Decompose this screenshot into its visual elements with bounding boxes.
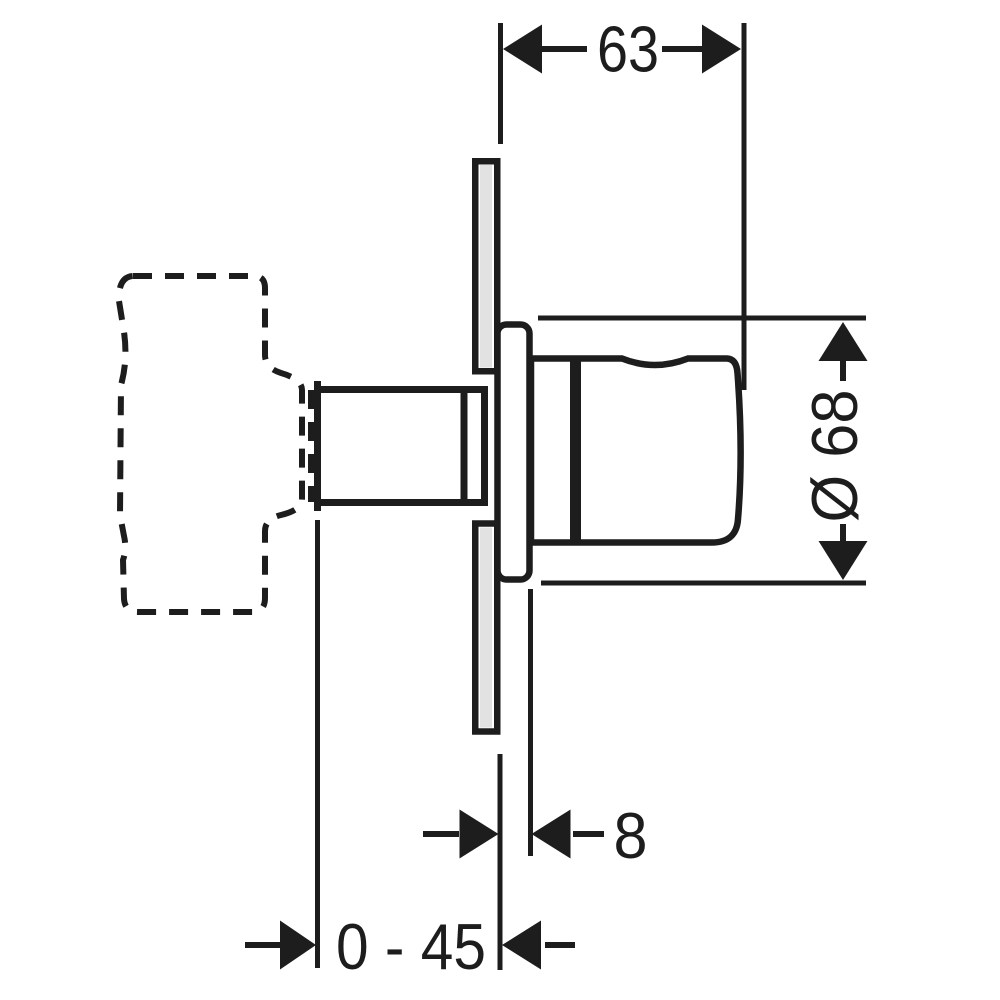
arrow right bbox=[702, 25, 741, 74]
arrow pointing left bbox=[532, 810, 571, 859]
svg-text:8: 8 bbox=[614, 799, 648, 872]
extension line right bbox=[528, 589, 533, 856]
extension line bottom bbox=[541, 581, 866, 586]
extension line left (shared with 0-45) bbox=[498, 754, 503, 970]
extension line right bbox=[742, 23, 747, 390]
arrow pointing right bbox=[460, 810, 499, 859]
arrow pointing right bbox=[280, 921, 316, 970]
handle joint line bbox=[570, 357, 581, 545]
dimension line tails bbox=[245, 942, 282, 948]
dimension line tails bbox=[840, 360, 846, 381]
svg-text:0 - 45: 0 - 45 bbox=[336, 910, 486, 983]
arrow left bbox=[503, 25, 542, 74]
wall / tile cross-section lower strip bbox=[475, 524, 497, 732]
dimension 0 - 45 bbox=[245, 520, 575, 968]
dimension line bbox=[540, 46, 587, 52]
wall / tile cross-section upper strip bbox=[475, 161, 497, 371]
svg-text:63: 63 bbox=[597, 13, 659, 86]
arrow down bbox=[819, 541, 868, 580]
dimension 8 bbox=[423, 589, 604, 970]
concealed valve body (dashed outline behind wall) bbox=[119, 276, 311, 612]
escutcheon plate (round, seen edge-on) bbox=[498, 325, 530, 580]
extension line left bbox=[315, 520, 320, 968]
spindle left end cap bbox=[314, 381, 321, 511]
arrow up bbox=[819, 322, 868, 361]
dimension line tails bbox=[423, 831, 459, 837]
hidden spindle end (inner dashed line) bbox=[308, 390, 314, 502]
valve spindle bbox=[318, 381, 485, 511]
extension line left bbox=[498, 23, 503, 144]
dimension 63 bbox=[501, 23, 745, 390]
spindle step line bbox=[461, 390, 468, 503]
extension line top bbox=[538, 316, 866, 321]
handle bbox=[531, 357, 741, 545]
svg-text:Ø 68: Ø 68 bbox=[798, 390, 871, 523]
dimension Ø 68 bbox=[538, 318, 866, 583]
arrow pointing left bbox=[502, 921, 541, 970]
